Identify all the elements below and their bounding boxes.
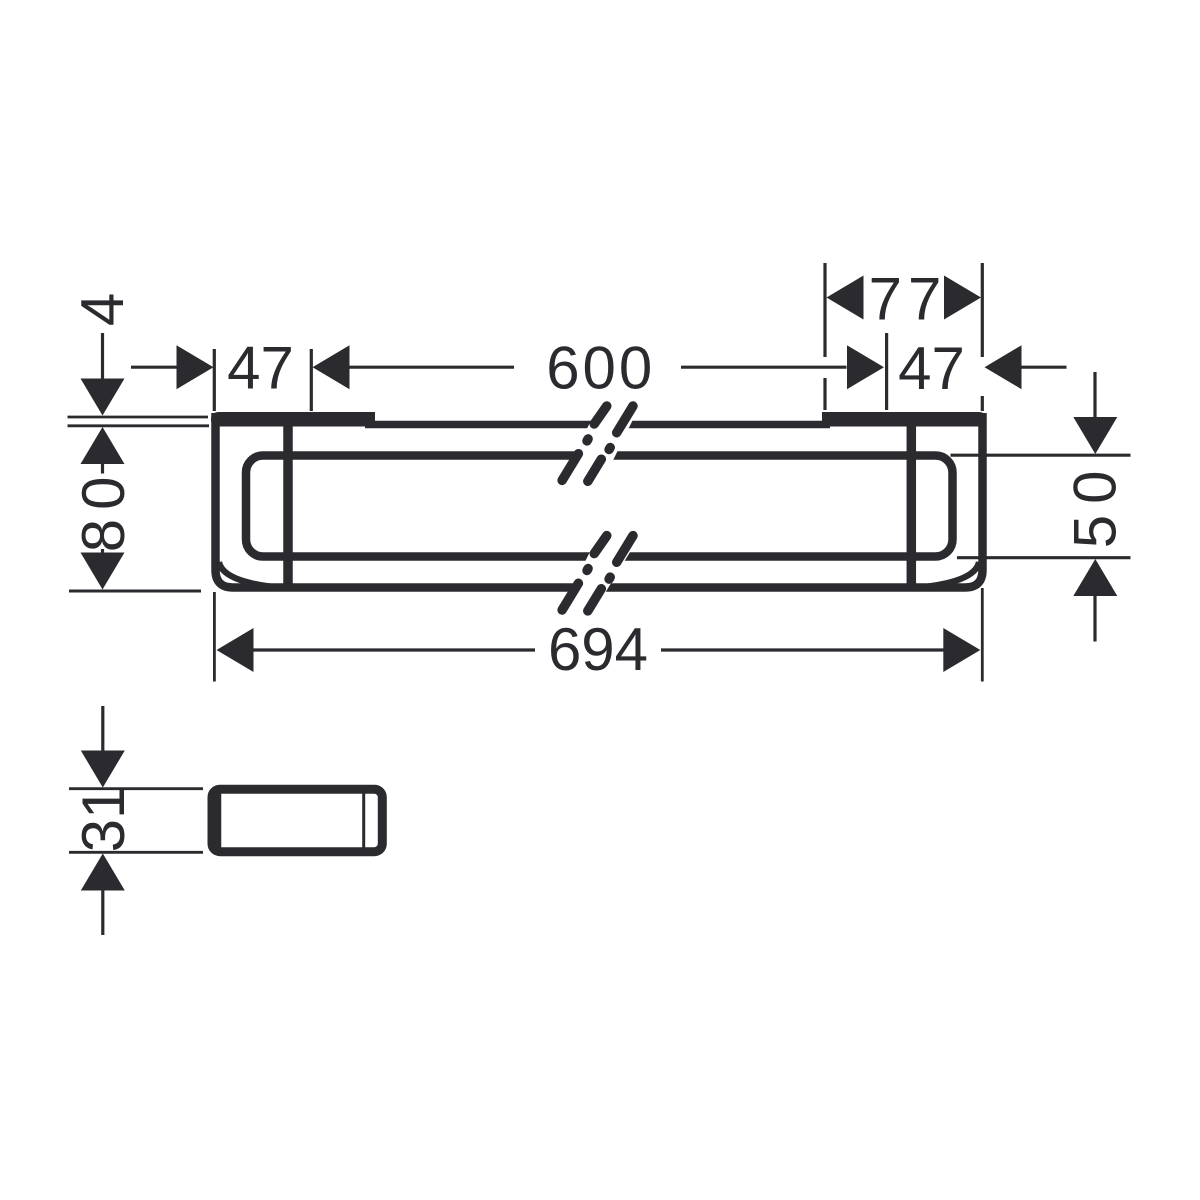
rail rounded rectangle (towel bar, plan view): [246, 456, 953, 557]
bar near-edge top line between plates: [365, 421, 830, 429]
dim row top: far-left leader line: [131, 366, 177, 369]
dim 80: up arrow: [81, 427, 125, 464]
dim 80: line stubs: [101, 464, 104, 555]
svg-text:4: 4: [69, 293, 136, 326]
dim 694: right extension line: [981, 588, 984, 682]
dim 50: up arrow: [1073, 559, 1117, 596]
dim 77: left extension line: [823, 263, 826, 410]
dim row top: right-pointing arrow at bar left edge: [177, 345, 214, 389]
lower break mark slash 2 (dashed): [588, 536, 633, 611]
extension line at bar left edge: [213, 349, 216, 411]
extension line left plate inner: [310, 349, 313, 411]
dim 50: down arrow: [1073, 417, 1117, 454]
dim 50: bottom leader: [1093, 596, 1096, 642]
right wall plate: [822, 412, 987, 427]
profile view: left cap thickening: [214, 790, 222, 852]
dim 4: lower thin extension line: [68, 424, 210, 427]
dim 77: right extension line: [981, 263, 984, 411]
dim 4: vertical leader above: [101, 333, 104, 379]
dim 31: lower extension line: [69, 851, 203, 854]
dim 31: up arrow: [81, 854, 125, 891]
svg-text:31: 31: [70, 786, 137, 853]
dim 600: right arrow: [847, 345, 884, 389]
dim 694: left extension line: [213, 592, 216, 682]
upper break mark white band: [556, 392, 646, 493]
upper break mark slash 2 (dashed): [588, 406, 633, 481]
dim 77: right outward arrow: [944, 276, 981, 320]
svg-text:50: 50: [1061, 460, 1128, 549]
dim 694: right line: [661, 648, 945, 651]
dim 31: top leader: [101, 706, 104, 752]
svg-text:80: 80: [70, 468, 137, 553]
dim 4: upper thin extension line: [68, 416, 209, 419]
outer holder profile: [216, 413, 983, 588]
lower break mark white band: [556, 521, 649, 621]
dim 80: down arrow: [81, 553, 125, 590]
profile view: outer rounded rect: [212, 789, 382, 852]
right holder inner edge: [907, 424, 917, 590]
dim 600: left line: [350, 366, 515, 369]
dim 77: left outward arrow: [827, 276, 864, 320]
left bottom inner curve: [219, 562, 288, 588]
dim 694: left line: [254, 648, 536, 651]
svg-text:77: 77: [869, 266, 948, 333]
upper break mark slash 1 (dashed): [562, 406, 607, 480]
svg-text:47: 47: [898, 335, 965, 402]
dim 600: left arrow: [313, 345, 350, 389]
dim 694: right arrow: [943, 628, 980, 672]
dim 31: down arrow: [81, 751, 125, 788]
extension line right plate mid: [885, 333, 888, 410]
dim 31: bottom leader: [101, 891, 104, 936]
dim 50: top leader: [1093, 372, 1096, 419]
dim 80: bottom extension line: [69, 590, 201, 593]
dim 47 right: left arrow pointing left... right-pointing arrow tip at 884 done; far right left arrow: [985, 345, 1022, 389]
svg-text:47: 47: [227, 335, 294, 402]
left wall plate: [211, 412, 375, 427]
svg-text:694: 694: [548, 616, 648, 683]
svg-text:600: 600: [546, 335, 655, 402]
dim 31: upper extension line: [69, 787, 203, 790]
dim 4: down arrow: [81, 379, 125, 416]
dim 50: lower extension line: [957, 556, 1131, 559]
dim 694: left arrow: [217, 628, 254, 672]
profile view: thin line near right end: [362, 791, 365, 850]
dim 50: upper extension line: [951, 454, 1131, 457]
dim 47 right: tail line: [1022, 366, 1067, 369]
lower break mark slash 1 (dashed): [562, 536, 607, 610]
left holder inner edge: [283, 424, 293, 590]
dim 600: right line: [681, 366, 847, 369]
right bottom inner curve: [910, 562, 979, 588]
